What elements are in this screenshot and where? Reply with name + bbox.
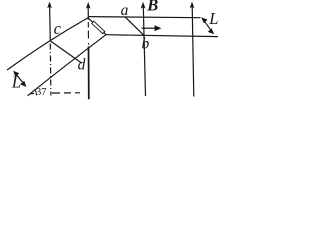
incline lower rail bbox=[28, 35, 107, 96]
field line arrow B stem (x~145) bbox=[143, 6, 145, 96]
arrowhead of field line B bbox=[141, 2, 146, 9]
arrowhead of field line 1 bbox=[47, 2, 52, 9]
svg-text:B: B bbox=[146, 0, 158, 14]
field line arrow 2 stem solid (junction x~88) bbox=[87, 6, 89, 20]
ground dashed base line bbox=[31, 92, 81, 95]
top rail of horizontal plane bbox=[88, 17, 200, 18]
resistor R body on ridge edge bbox=[92, 21, 105, 34]
arrowhead L-left lower bbox=[20, 81, 26, 87]
svg-text:d: d bbox=[78, 56, 86, 73]
arrowhead L-left upper bbox=[13, 71, 19, 77]
rod cd on incline bbox=[51, 41, 82, 63]
arrowhead L-right lower bbox=[208, 28, 214, 34]
arrowhead of field line 2 bbox=[86, 2, 91, 9]
svg-text:a: a bbox=[121, 2, 129, 19]
L arrow right line (horizontal plane width) bbox=[203, 19, 213, 33]
arrowhead of field line 4 bbox=[190, 2, 195, 9]
field line arrow 2 hidden dashes below junction bbox=[87, 22, 89, 45]
incline top rail bbox=[7, 18, 88, 70]
vertical height edge of wedge (solid) bbox=[88, 47, 90, 100]
arrowhead L-right upper bbox=[201, 17, 207, 23]
arrowhead of velocity arrow bbox=[155, 25, 162, 31]
lower rail of horizontal plane bbox=[106, 35, 218, 37]
svg-text:37: 37 bbox=[36, 87, 47, 98]
velocity arrow stem of rod ab bbox=[142, 27, 156, 29]
field line arrow 1 stem solid (x~49) bbox=[49, 6, 52, 42]
rod ab on horizontal plane bbox=[125, 17, 144, 35]
wire lead resistor to corner K bbox=[104, 32, 107, 35]
wire lead junction to resistor bbox=[88, 18, 92, 22]
angle arc at 37 degrees vertex bbox=[35, 90, 37, 96]
svg-text:b: b bbox=[142, 35, 150, 52]
L arrow left line (incline width) bbox=[15, 72, 26, 85]
svg-text:L: L bbox=[11, 73, 21, 92]
field line arrow 1 hidden dash-dot below incline bbox=[49, 44, 52, 96]
svg-text:c: c bbox=[54, 19, 62, 38]
svg-text:L: L bbox=[208, 9, 218, 28]
field line arrow 4 stem (x~192) bbox=[192, 6, 194, 97]
